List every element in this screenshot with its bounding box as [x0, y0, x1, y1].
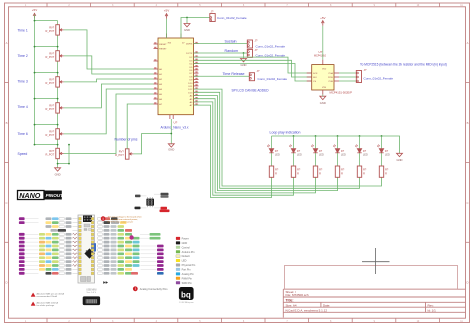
- wire pot 4 wiper to IC pin A3: [64, 84, 154, 108]
- connector J4 time release: [249, 73, 254, 81]
- svg-text:GND: GND: [55, 173, 61, 177]
- svg-text:LED: LED: [341, 154, 346, 157]
- nano pinout info note: [101, 216, 143, 224]
- svg-text:Control: Control: [182, 246, 191, 249]
- svg-text:RV?: RV?: [49, 78, 55, 82]
- svg-text:Time 6: Time 6: [18, 132, 28, 136]
- nano pinout analog connectivity note: [133, 286, 168, 291]
- IC left pin stubs: [154, 42, 159, 104]
- wire mcp4151 P0W: [339, 76, 356, 78]
- ground (pot column): [55, 168, 61, 177]
- wire SPI sck to MCP4151: [194, 57, 312, 73]
- junction top gnd branch: [186, 17, 188, 19]
- svg-text:Conn_01x02_Female: Conn_01x02_Female: [217, 16, 247, 20]
- svg-text:recommended 20mA: recommended 20mA: [37, 295, 58, 298]
- svg-text:Id: 1/1: Id: 1/1: [428, 309, 437, 313]
- junction LED 4: [337, 135, 339, 137]
- resistor R6: [379, 166, 389, 177]
- wire sustain row: [194, 43, 248, 45]
- svg-text:Physical Pin: Physical Pin: [182, 264, 196, 267]
- title block: [283, 289, 465, 317]
- svg-text:VSS: VSS: [322, 87, 327, 89]
- svg-text:Vcc: 5.0 V: Vcc: 5.0 V: [87, 292, 97, 294]
- svg-text:SPI LCD CAN BE ADDED: SPI LCD CAN BE ADDED: [232, 88, 270, 92]
- wire pot right trunk: [68, 145, 70, 164]
- svg-text:LED: LED: [319, 154, 324, 157]
- bq logo: [179, 287, 194, 304]
- wire mcp4151 P0A: [339, 72, 356, 74]
- junction LED 3: [315, 135, 317, 137]
- wire pot row 4: [34, 98, 59, 100]
- wire random gnd branch: [243, 53, 245, 59]
- svg-text:PWM Pin: PWM Pin: [182, 277, 193, 280]
- svg-text:J?: J?: [211, 9, 214, 13]
- resistor R3: [313, 166, 323, 177]
- wire pot row 5: [34, 124, 59, 126]
- IC top pin stubs: [167, 34, 186, 45]
- wire pot 3 wiper to IC pin A2: [64, 79, 154, 82]
- nano pinout left pin labels: [19, 217, 78, 274]
- svg-text:R_POT: R_POT: [115, 153, 124, 157]
- svg-text:D: D: [5, 281, 7, 285]
- svg-text:C: C: [466, 201, 468, 205]
- svg-text:Loop play indication: Loop play indication: [270, 130, 301, 134]
- svg-text:SWD Pin: SWD Pin: [182, 282, 193, 285]
- svg-text:Sustain: Sustain: [225, 39, 237, 43]
- wire nano gnd: [170, 119, 172, 144]
- ground (mcp4151): [320, 96, 326, 105]
- resistor R2: [291, 166, 301, 177]
- svg-text:RV?: RV?: [119, 150, 125, 154]
- svg-text:NANO: NANO: [19, 191, 41, 200]
- svg-text:Time 3: Time 3: [18, 80, 28, 84]
- svg-text:R_POT: R_POT: [46, 153, 55, 157]
- svg-text:Analog Pin: Analog Pin: [182, 273, 195, 276]
- svg-text:Port Pin: Port Pin: [182, 269, 192, 272]
- wire pot 2 wiper to IC pin A1: [64, 56, 154, 74]
- LED D5: [355, 145, 368, 157]
- svg-text:i: i: [103, 217, 104, 221]
- svg-text:RV?: RV?: [49, 52, 55, 56]
- wire LED 3 cathode: [315, 153, 317, 166]
- nano pinout usb connector: [83, 290, 100, 306]
- resistor R5: [357, 166, 367, 177]
- svg-text:Conn_01x02_Female: Conn_01x02_Female: [258, 77, 288, 81]
- svg-text:Conn_01x02_Female: Conn_01x02_Female: [256, 44, 286, 48]
- IC right pin names: [186, 44, 193, 107]
- svg-text:SCK: SCK: [313, 73, 318, 75]
- svg-text:PINOUT: PINOUT: [46, 193, 65, 198]
- svg-text:R: R: [363, 173, 365, 176]
- wire SPI cs to MCP4151: [194, 64, 312, 82]
- wire numpins wiper to gnd net: [133, 134, 171, 154]
- wire nano pin to LED 2 resistor: [194, 102, 294, 195]
- wire nano 5V to connector J top: [181, 18, 210, 39]
- svg-text:Analog Connectivity Pins: Analog Connectivity Pins: [140, 288, 168, 291]
- svg-text:P0B: P0B: [329, 81, 334, 83]
- wire pot 1 wiper to IC pin A0: [64, 30, 154, 69]
- svg-text:Power: Power: [182, 238, 189, 241]
- svg-text:Conn_01x02_Female: Conn_01x02_Female: [364, 77, 394, 81]
- connector J1 top: [210, 9, 247, 21]
- svg-text:Arduino_Nano_v3.x: Arduino_Nano_v3.x: [161, 125, 189, 129]
- wire nano pin to LED 4 resistor: [194, 96, 338, 191]
- wire pot 5 wiper to IC pin A4: [64, 89, 154, 134]
- power +5V (pot column): [32, 8, 37, 19]
- svg-text:LED: LED: [275, 154, 280, 157]
- svg-text:Date:: Date:: [323, 303, 330, 307]
- wire speed row bottom: [57, 144, 70, 165]
- svg-text:D0/RX: D0/RX: [186, 44, 193, 46]
- potentiometer RV1 (Time 1): [46, 25, 64, 35]
- IC U2 MCP4151 body: [312, 65, 334, 90]
- svg-text:SDI: SDI: [313, 77, 317, 79]
- svg-text:RV?: RV?: [49, 104, 55, 108]
- wire gnd branch top: [186, 18, 188, 24]
- svg-text:LED: LED: [385, 154, 390, 157]
- svg-text:CC-BY-SA bq.com: CC-BY-SA bq.com: [179, 301, 194, 304]
- nano board pads: [79, 217, 94, 274]
- wire mcp4151 vcc: [322, 26, 324, 60]
- power +5V (nano): [164, 9, 169, 19]
- power +5V (mcp4151): [320, 16, 325, 26]
- svg-text:J?: J?: [364, 68, 367, 72]
- potentiometer RV4 (Time 4): [46, 103, 64, 113]
- wire LED 4 anode: [337, 136, 339, 148]
- junction random gnd: [243, 52, 245, 54]
- svg-text:R_POT: R_POT: [46, 81, 55, 85]
- notes box above title block: [285, 266, 458, 290]
- IC U1 Arduino Nano symbol body: [158, 38, 194, 115]
- svg-text:P0A: P0A: [329, 72, 334, 75]
- ground (random): [241, 59, 247, 68]
- svg-text:USB MINI: USB MINI: [86, 290, 97, 292]
- svg-text:J?: J?: [255, 39, 258, 43]
- wire LED 5 cathode: [359, 153, 361, 166]
- svg-text:MCP4151-502E/P: MCP4151-502E/P: [330, 91, 353, 95]
- nano pinout pin1 marker: [103, 281, 107, 283]
- resistor R1: [269, 166, 279, 177]
- svg-text:GND: GND: [168, 147, 174, 151]
- wire pot row 2: [34, 46, 59, 48]
- svg-text:Time Release: Time Release: [223, 72, 245, 76]
- svg-text:MCP41010: MCP41010: [314, 55, 327, 58]
- svg-text:GND: GND: [320, 101, 326, 105]
- svg-text:Time 2: Time 2: [18, 54, 28, 58]
- nano board drawing: [78, 215, 96, 283]
- connector J3 random: [247, 49, 252, 57]
- svg-text:U?: U?: [319, 50, 323, 54]
- wire nano pin to LED 6 resistor: [194, 89, 382, 186]
- svg-text:J?: J?: [257, 69, 260, 73]
- svg-text:B: B: [467, 121, 469, 125]
- wire LED 3 anode: [315, 136, 317, 148]
- svg-text:GND: GND: [397, 158, 403, 162]
- LED D4: [333, 145, 346, 157]
- svg-text:File: MT2500.sch: File: MT2500.sch: [286, 293, 309, 297]
- nano pinout legend: [176, 237, 196, 285]
- svg-text:CS: CS: [313, 81, 317, 83]
- svg-text:R: R: [297, 173, 299, 176]
- svg-text:Speed: Speed: [18, 152, 28, 156]
- wire nano pin to LED 1 resistor: [194, 105, 272, 197]
- svg-text:+5V: +5V: [32, 8, 37, 12]
- svg-text:LED: LED: [363, 154, 368, 157]
- svg-text:RV?: RV?: [49, 149, 55, 153]
- svg-text:Time 1: Time 1: [18, 29, 28, 33]
- wire mcp4151 P0B: [339, 80, 356, 82]
- wire time release row: [194, 75, 250, 77]
- svg-text:D1/TX: D1/TX: [186, 53, 193, 55]
- wire pot row 1: [34, 20, 58, 22]
- svg-text:RESET: RESET: [159, 44, 167, 46]
- svg-text:R: R: [319, 173, 321, 176]
- svg-text:+5V: +5V: [320, 16, 325, 20]
- nano pinout warnings: [31, 293, 65, 308]
- wire numpins top to IC pin A7: [127, 104, 153, 149]
- ground (nano): [168, 144, 174, 152]
- bitmap anchor cross: [362, 248, 390, 274]
- resistor R4: [335, 166, 345, 177]
- svg-text:Time 4: Time 4: [18, 105, 28, 109]
- svg-text:LED: LED: [182, 260, 187, 263]
- svg-text:R: R: [275, 173, 277, 176]
- svg-text:Default: Default: [182, 255, 190, 258]
- svg-text:A: A: [467, 41, 469, 45]
- wire LED 5 anode: [359, 136, 361, 148]
- wire pot row 3: [34, 72, 59, 74]
- svg-text:B: B: [6, 121, 8, 125]
- svg-text:D: D: [466, 281, 468, 285]
- wire random row: [194, 52, 248, 54]
- svg-text:To MCP2515 (between the 2k res: To MCP2515 (between the 2k resistor and …: [360, 63, 447, 67]
- svg-text:RV?: RV?: [49, 130, 55, 134]
- svg-text:Random: Random: [225, 49, 239, 53]
- connector J2 sustain: [247, 40, 252, 48]
- wire pot chain vertical trunk: [57, 21, 59, 168]
- svg-text:bq: bq: [181, 291, 191, 300]
- wire LED 2 cathode: [293, 153, 295, 166]
- wire nano pin to LED 5 resistor: [194, 92, 360, 188]
- wire nano pin to LED 3 resistor: [194, 99, 316, 193]
- svg-text:R_POT: R_POT: [46, 55, 55, 59]
- MCP4151 pin names: [313, 68, 334, 89]
- svg-text:Rev:: Rev:: [428, 303, 434, 307]
- IC right pin stubs: [194, 42, 199, 105]
- wire pot row 6: [34, 144, 59, 146]
- potentiometer RV3 (Time 3): [46, 77, 64, 87]
- svg-text:LED: LED: [297, 154, 302, 157]
- wire LED 1 cathode: [271, 153, 273, 166]
- potentiometer RV6 (Speed): [46, 148, 64, 158]
- svg-text:R: R: [385, 173, 387, 176]
- ground (top connector): [184, 24, 190, 33]
- nano pinout logo: [18, 191, 65, 201]
- svg-text:Size: A4: Size: A4: [286, 303, 297, 307]
- nano pinout ICSP header: [135, 193, 170, 212]
- svg-text:R_POT: R_POT: [46, 29, 55, 33]
- svg-text:RV?: RV?: [49, 26, 55, 30]
- wire LED 2 anode: [293, 136, 295, 148]
- MCP4151 pin stubs: [307, 60, 339, 95]
- svg-text:VDD: VDD: [322, 68, 327, 70]
- wire SPI sdi to MCP4151: [194, 60, 312, 77]
- svg-text:+5V: +5V: [164, 9, 169, 13]
- nano pinout right pin labels: [98, 217, 164, 274]
- potentiometer RV2 (Time 2): [46, 51, 64, 61]
- svg-text:for whole package: for whole package: [37, 304, 56, 307]
- svg-text:C: C: [5, 201, 7, 205]
- wire nano vcc: [166, 19, 168, 38]
- IC bottom pin stubs: [170, 115, 173, 119]
- svg-text:RESET: RESET: [159, 49, 167, 51]
- svg-text:J?: J?: [255, 48, 258, 52]
- svg-text:R_POT: R_POT: [46, 107, 55, 111]
- LED D6: [377, 145, 390, 157]
- LED D2: [289, 145, 302, 157]
- svg-text:GND: GND: [182, 242, 188, 245]
- svg-text:U?: U?: [174, 120, 178, 124]
- svg-text:R: R: [341, 173, 343, 176]
- junction LED 6: [381, 135, 383, 137]
- connector J5 wiper out: [356, 68, 393, 83]
- wire LED 6 anode: [381, 136, 383, 148]
- LED D1: [267, 145, 280, 157]
- svg-text:Absolute MAX per pin 40mA: Absolute MAX per pin 40mA: [37, 293, 65, 296]
- svg-text:Title:: Title:: [286, 298, 294, 302]
- ground (LED row): [397, 153, 403, 162]
- wire LED common top: [272, 136, 400, 153]
- svg-text:KiCad E.D.A. eeschema 5.1.12: KiCad E.D.A. eeschema 5.1.12: [286, 309, 328, 313]
- svg-text:Arduino Pin: Arduino Pin: [182, 251, 196, 254]
- potentiometer RV7 (Number of pins): [115, 149, 133, 159]
- wire pot 6 wiper to IC pin A5: [64, 94, 154, 154]
- wire +5V bus vertical: [34, 15, 36, 145]
- svg-text:!: !: [135, 287, 136, 291]
- wire LED 4 cathode: [337, 153, 339, 166]
- svg-text:R_POT: R_POT: [46, 133, 55, 137]
- svg-text:NOT the max output power: NOT the max output power: [108, 221, 134, 224]
- wire LED 1 anode: [271, 136, 273, 148]
- LED D3: [311, 145, 324, 157]
- svg-text:A: A: [6, 41, 8, 45]
- svg-text:GND: GND: [184, 28, 190, 32]
- IC left pin names: [159, 44, 167, 106]
- potentiometer RV5 (Time 6): [46, 129, 64, 139]
- wire LED 6 cathode: [381, 153, 383, 166]
- svg-text:Absolute MAX 200mA: Absolute MAX 200mA: [37, 302, 59, 305]
- junction LED 2: [293, 135, 295, 137]
- svg-text:Number of pins: Number of pins: [115, 138, 138, 142]
- junction LED 5: [359, 135, 361, 137]
